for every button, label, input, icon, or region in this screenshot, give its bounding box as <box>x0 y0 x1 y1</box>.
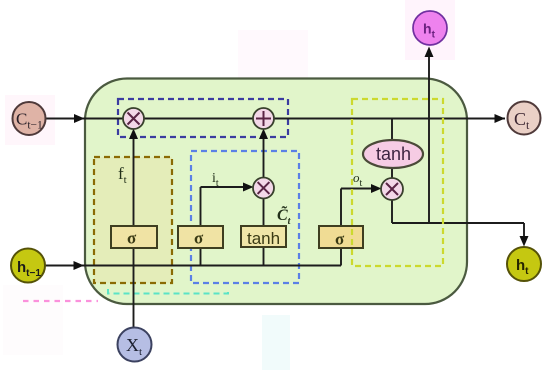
svg-text:σ: σ <box>335 230 345 249</box>
svg-text:σ: σ <box>127 229 137 248</box>
svg-text:tanh: tanh <box>247 229 280 248</box>
svg-text:σ: σ <box>194 229 204 248</box>
svg-text:tanh: tanh <box>376 144 411 164</box>
